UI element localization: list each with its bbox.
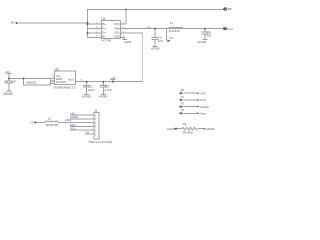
capacitor C5 — [154, 29, 156, 38]
svg-text:+3V: +3V — [5, 70, 10, 74]
wire vertical to 3V3 rail — [142, 33, 144, 82]
port flags (filled) — [16, 7, 227, 130]
junction pin3 — [87, 32, 89, 34]
svg-text:AGND: AGND — [124, 41, 131, 44]
svg-text:P+: P+ — [11, 21, 15, 25]
component box AADC1 — [24, 79, 51, 86]
svg-text:C1: C1 — [4, 80, 8, 84]
svg-text:4.7uF: 4.7uF — [104, 88, 112, 92]
wire U1 pin1 stub — [88, 23, 102, 25]
port flag R1 row — [176, 127, 179, 130]
svg-text:AGND: AGND — [206, 127, 216, 131]
svg-text:U2: U2 — [55, 67, 59, 71]
svg-text:TS: TS — [181, 102, 185, 106]
ground AGND under U1 — [122, 39, 127, 41]
svg-text:BP: BP — [228, 7, 232, 11]
wire J1 pin4 — [70, 125, 94, 127]
wire P+ to U1 bus — [19, 22, 88, 24]
svg-text:ACT40: ACT40 — [102, 39, 112, 43]
wire box to U2 GND — [51, 80, 55, 82]
svg-text:AADC1: AADC1 — [27, 80, 37, 84]
ground AGND under C6 — [203, 38, 208, 40]
capacitor C6 — [204, 29, 206, 32]
port row 3 wire — [184, 106, 198, 108]
capacitor C1 — [8, 79, 10, 82]
port arrow row4 — [197, 112, 199, 114]
IC U2 box — [55, 71, 76, 85]
port flag +3V bottom left — [35, 121, 38, 124]
wire J1 pin1 — [70, 114, 94, 116]
svg-text:AGND: AGND — [99, 95, 109, 99]
svg-text:L2: L2 — [48, 116, 52, 120]
port flag row3 — [180, 105, 183, 108]
wire U1 VCC to top rail — [121, 9, 127, 24]
ground AGND under C1 — [7, 90, 12, 92]
port Pout flag — [223, 27, 227, 30]
port flag row1 — [180, 92, 183, 95]
svg-text:AGND: AGND — [82, 95, 92, 99]
svg-text:AGND: AGND — [70, 115, 78, 119]
svg-text:TC: TC — [181, 95, 185, 99]
junction +3V flag — [112, 81, 114, 83]
wire top rail — [88, 10, 225, 24]
wire U1 GND stub — [121, 37, 125, 39]
svg-text:+3V: +3V — [200, 92, 205, 96]
svg-text:10nF: 10nF — [88, 88, 95, 92]
resistor R1 — [182, 127, 197, 130]
svg-text:SCL: SCL — [70, 127, 76, 131]
svg-text:GND: GND — [114, 35, 120, 39]
wire box to U2 ON/OFF — [51, 82, 55, 84]
svg-text:CF: CF — [147, 25, 151, 29]
svg-text:AGND: AGND — [167, 127, 177, 131]
capacitor C3 — [102, 82, 104, 86]
junction AADC box — [23, 78, 25, 80]
svg-text:330-680: 330-680 — [182, 130, 193, 134]
red pin numbers — [52, 22, 125, 137]
port flag row4 — [180, 112, 183, 115]
svg-text:L1: L1 — [170, 21, 174, 25]
svg-text:1n5: 1n5 — [158, 39, 163, 43]
capacitor C2 — [86, 82, 88, 86]
wire U1 pin2 stub — [88, 28, 102, 30]
svg-text:R1: R1 — [183, 122, 187, 126]
wire +3V through L2 to J1 pin3 — [37, 121, 45, 123]
wire J1 pin5 — [70, 129, 94, 131]
wire U2 Vout rail — [76, 81, 143, 83]
svg-text:TH: TH — [169, 36, 173, 40]
connector J1 box — [94, 113, 99, 140]
port row 1 wire — [184, 92, 198, 94]
junction VCC top rail — [125, 9, 127, 11]
junction P+ bus — [87, 22, 89, 24]
wire TH testpoint — [166, 29, 168, 41]
svg-text:3n9-6n8: 3n9-6n8 — [169, 29, 180, 33]
power +3V flag on rail — [112, 80, 114, 82]
junction C1 — [8, 78, 10, 80]
svg-text:U1: U1 — [102, 17, 106, 21]
resistor R1 row wires — [178, 128, 182, 130]
port row 4 wire — [184, 112, 198, 114]
ground AGND under C2 — [84, 94, 89, 96]
svg-text:On/OFF: On/OFF — [56, 80, 66, 84]
junction C3 — [102, 81, 104, 83]
port arrow row3 — [197, 106, 199, 108]
inductor L2 — [45, 121, 59, 122]
svg-text:Vout: Vout — [68, 78, 74, 82]
junction C5 — [154, 28, 156, 30]
svg-text:AGND: AGND — [200, 105, 210, 109]
port P+ flag — [16, 22, 19, 25]
wire J1 pin6 — [85, 133, 94, 135]
svg-text:1uF: 1uF — [11, 80, 16, 84]
ground AGND under C5 — [153, 45, 158, 47]
svg-text:AGND: AGND — [4, 92, 14, 96]
svg-text:CLK: CLK — [200, 98, 206, 102]
port arrow R1 row — [203, 128, 205, 130]
svg-text:TSM-1 11.21.2001: TSM-1 11.21.2001 — [89, 140, 113, 144]
svg-text:TP: TP — [181, 108, 185, 112]
svg-text:+3V: +3V — [110, 76, 115, 80]
port BP flag top right — [223, 7, 227, 10]
svg-text:SP: SP — [181, 88, 185, 92]
junction pin1 — [87, 23, 89, 25]
svg-text:LP2985AIM5-3.3: LP2985AIM5-3.3 — [53, 86, 76, 90]
inductor L1 — [169, 27, 183, 28]
wire U1 pin3 stub — [88, 32, 102, 34]
svg-text:TH: TH — [85, 130, 89, 134]
svg-text:+3V: +3V — [30, 120, 35, 124]
wire left bus down — [87, 23, 89, 37]
svg-text:B-: B- — [103, 35, 106, 39]
svg-text:1M: 1M — [207, 33, 212, 37]
port flag row2 — [180, 99, 183, 102]
ground AGND under C3 — [101, 94, 106, 96]
svg-text:AGND: AGND — [198, 40, 208, 44]
testpoint TH arrow — [167, 40, 171, 43]
svg-text:Pout: Pout — [227, 27, 234, 31]
wire U1 pin6 stub right — [121, 32, 144, 34]
wire U1 pin7 to Pout — [121, 28, 224, 30]
junction C2 — [86, 81, 88, 83]
port arrow row1 — [197, 92, 199, 94]
port arrow row2 — [197, 99, 199, 101]
svg-text:AGND: AGND — [151, 46, 161, 50]
svg-text:J1: J1 — [94, 109, 98, 113]
IC U1 box — [102, 21, 121, 39]
wire U1 pin4 stub — [88, 36, 102, 38]
wire Vin rail — [9, 78, 55, 80]
svg-text:SDR0703: SDR0703 — [46, 123, 59, 127]
junction dots — [8, 9, 206, 83]
junction C6 — [204, 28, 206, 30]
wire J1 pin2 — [70, 118, 94, 120]
port row 2 wire — [184, 99, 198, 101]
power +3V flag bottom-left — [7, 73, 12, 75]
svg-text:Vout: Vout — [200, 112, 206, 116]
